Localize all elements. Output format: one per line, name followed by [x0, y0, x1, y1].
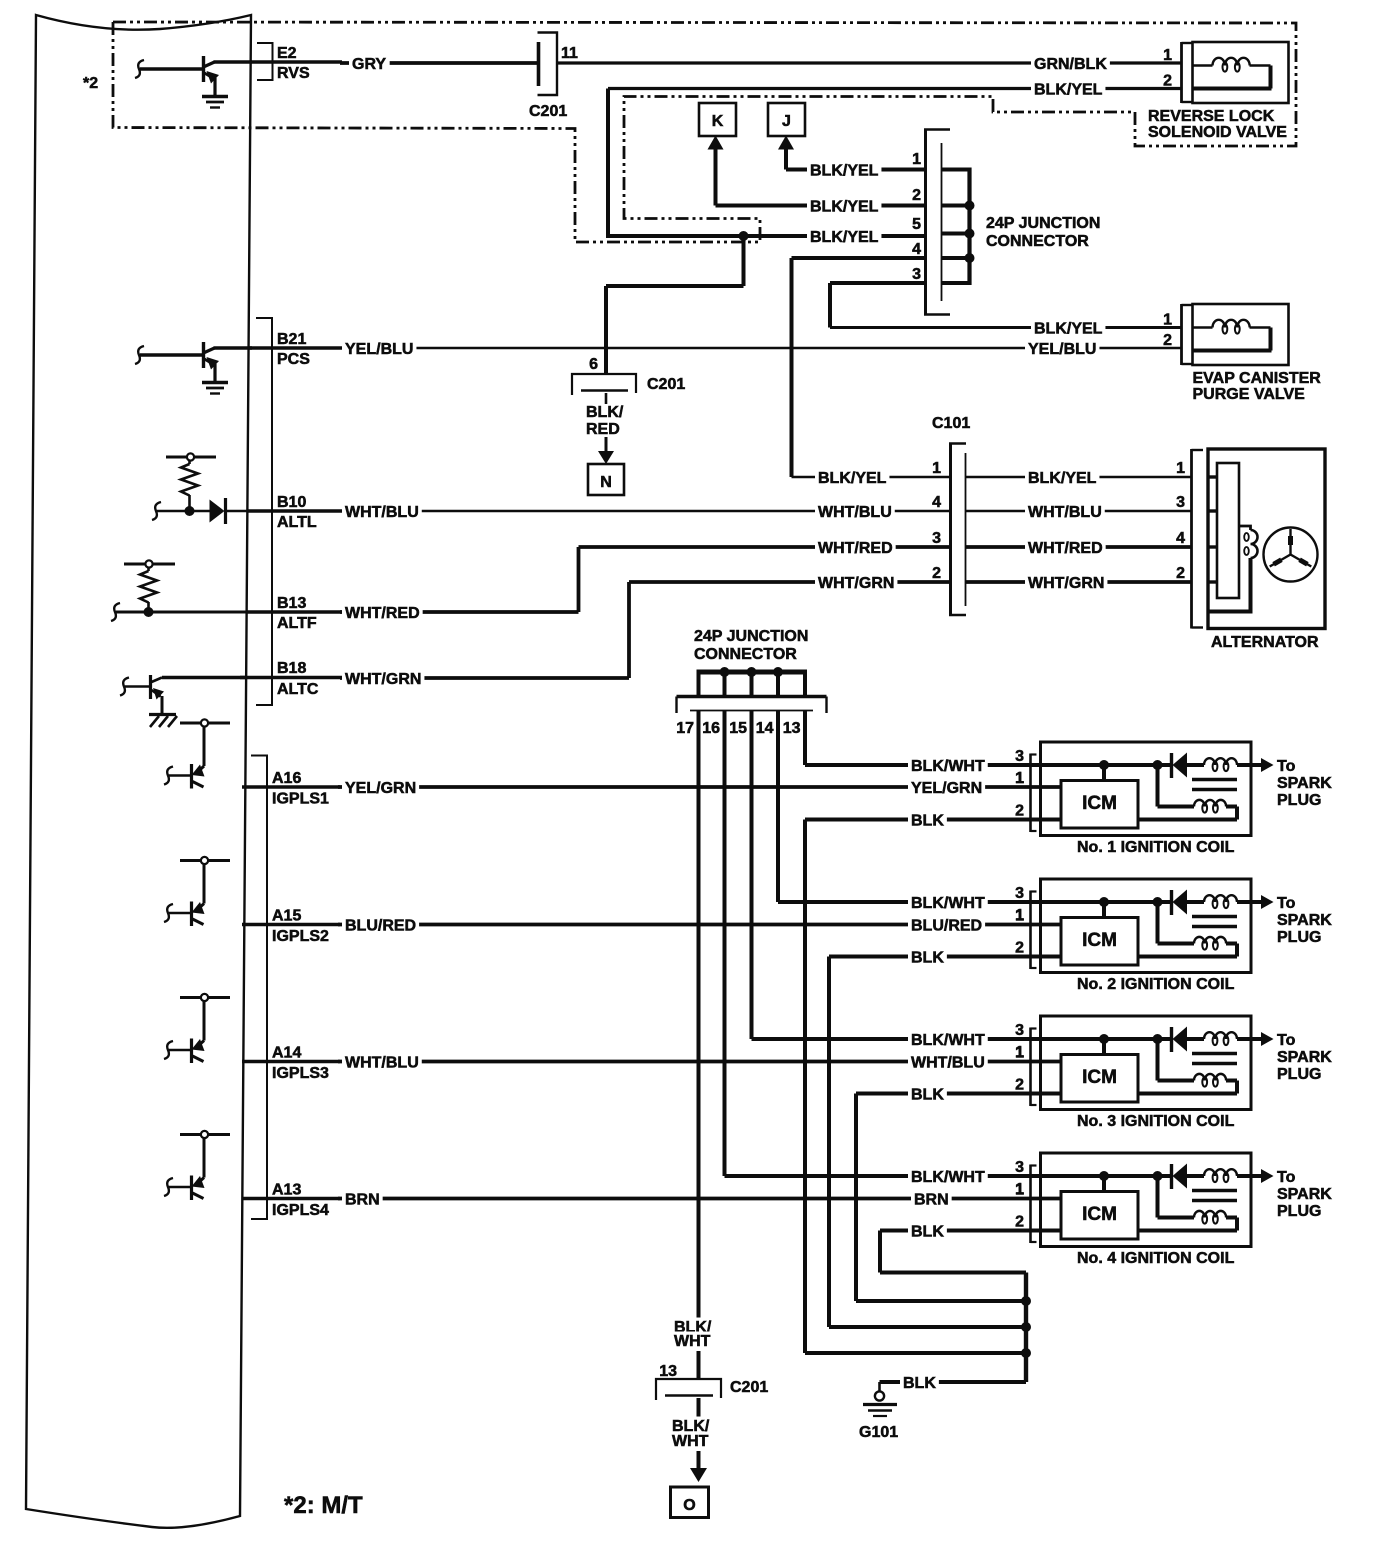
svg-text:ICM: ICM — [1082, 1067, 1117, 1088]
svg-text:WHT/BLU: WHT/BLU — [1028, 504, 1102, 521]
wire YEL/BLU from pin B21 to EVAP purge valve pin 2 — [340, 332, 1181, 359]
svg-text:WHT/BLU: WHT/BLU — [345, 504, 419, 521]
svg-text:WHT/BLU: WHT/BLU — [911, 1055, 985, 1072]
wire BLK/YEL from 24P junction pin 4 to C101 pin 1 — [792, 258, 951, 488]
svg-text:ICM: ICM — [1082, 1204, 1117, 1225]
svg-text:BLU/RED: BLU/RED — [345, 918, 416, 935]
svg-text:PLUG: PLUG — [1277, 1203, 1321, 1220]
svg-text:2: 2 — [1015, 1077, 1024, 1094]
svg-text:1: 1 — [932, 460, 941, 477]
svg-text:5: 5 — [912, 216, 921, 233]
svg-text:3: 3 — [1015, 885, 1024, 902]
svg-text:2: 2 — [1015, 1214, 1024, 1231]
svg-text:N: N — [600, 474, 612, 491]
pin A13 IGPLS4 — [242, 1182, 340, 1220]
connector 24P junction connector (lower) — [676, 628, 826, 737]
wire BLK/YEL to 24P junction connector pin 5 — [606, 228, 924, 247]
resistor R1 pull-up at pin B10 — [166, 453, 216, 511]
svg-text:CONNECTOR: CONNECTOR — [694, 646, 797, 663]
svg-text:WHT/GRN: WHT/GRN — [345, 671, 421, 688]
wire WHT/RED from pin B13 to C101 pin 3 — [111, 530, 950, 623]
svg-text:ICM: ICM — [1082, 793, 1117, 814]
svg-text:2: 2 — [1015, 940, 1024, 957]
svg-text:WHT/BLU: WHT/BLU — [345, 1055, 419, 1072]
svg-text:GRN/BLK: GRN/BLK — [1034, 56, 1107, 73]
svg-text:IGPLS4: IGPLS4 — [272, 1202, 329, 1219]
ground at Q2 emitter — [202, 383, 228, 394]
svg-text:BLK/: BLK/ — [586, 404, 624, 421]
svg-text:BLK: BLK — [911, 813, 944, 830]
svg-text:ALTL: ALTL — [277, 514, 317, 531]
svg-text:24P JUNCTION: 24P JUNCTION — [986, 215, 1100, 232]
svg-text:1: 1 — [1163, 312, 1172, 329]
svg-text:BLK/YEL: BLK/YEL — [818, 470, 887, 487]
svg-text:WHT/RED: WHT/RED — [345, 605, 420, 622]
svg-text:BLU/RED: BLU/RED — [911, 918, 982, 935]
svg-text:SPARK: SPARK — [1277, 912, 1332, 929]
svg-text:ALTF: ALTF — [277, 615, 317, 632]
svg-text:YEL/GRN: YEL/GRN — [345, 780, 416, 797]
svg-text:1: 1 — [1163, 47, 1172, 64]
svg-text:2: 2 — [1163, 332, 1172, 349]
svg-text:3: 3 — [912, 266, 921, 283]
pin E2 RVS (ECM connector pin bracket and labels) — [250, 43, 342, 82]
svg-text:BLK/YEL: BLK/YEL — [810, 199, 879, 216]
svg-text:WHT/GRN: WHT/GRN — [1028, 575, 1104, 592]
connector C201 pin 6 — [572, 356, 685, 395]
pin A16 IGPLS1 — [242, 770, 340, 808]
connector C201 pin 11 (inline connector) — [529, 33, 578, 121]
svg-text:C201: C201 — [730, 1379, 768, 1396]
svg-text:B13: B13 — [277, 595, 306, 612]
svg-text:3: 3 — [1015, 748, 1024, 765]
ignition coil No. 4 (with ICM igniter and diode) — [1015, 1153, 1332, 1267]
svg-text:BLK/YEL: BLK/YEL — [810, 229, 879, 246]
solenoid EVAP canister purge valve — [1182, 304, 1322, 403]
pin bracket for ECM pins A16 A15 A14 A13 — [251, 756, 267, 1220]
junction node on BLK/YEL wire — [739, 231, 749, 241]
svg-text:PLUG: PLUG — [1277, 929, 1321, 946]
ECM/PCM control unit boundary (torn page edges) — [26, 15, 251, 1528]
pin A14 IGPLS3 — [242, 1045, 340, 1083]
transistor Q3 (ALTC driver) — [120, 675, 247, 714]
wire WHT/BLU from pin A14 to No. 3 ignition coil pin 1 — [338, 1045, 1061, 1073]
svg-text:PCS: PCS — [277, 351, 310, 368]
svg-text:4: 4 — [1176, 530, 1185, 547]
wire BLK/YEL to connector K — [716, 197, 925, 216]
dash-dot boundary *2 M/T option region — [113, 22, 1296, 242]
transistor Q4 (IGPLS1 output driver) — [164, 719, 230, 788]
svg-text:SPARK: SPARK — [1277, 775, 1332, 792]
svg-text:C201: C201 — [647, 376, 685, 393]
svg-text:2: 2 — [932, 565, 941, 582]
svg-text:ICM: ICM — [1082, 930, 1117, 951]
svg-text:3: 3 — [1015, 1159, 1024, 1176]
wire BLK/YEL from junction node down to C201 pin 6 — [606, 236, 744, 374]
svg-text:4: 4 — [932, 494, 941, 511]
wire BLK from No.2 ignition coil pin 2 to ground bus — [829, 948, 1061, 1327]
transistor Q2 (PCS output driver) — [135, 342, 252, 382]
ignition coil No. 3 (with ICM igniter and diode) — [1015, 1016, 1332, 1130]
svg-text:B18: B18 — [277, 660, 306, 677]
svg-text:WHT: WHT — [672, 1433, 709, 1450]
svg-text:RED: RED — [586, 421, 620, 438]
diode D1 at pin B10 — [210, 498, 226, 524]
wire GRY from pin E2 to C201 pin 11 — [340, 55, 538, 74]
svg-text:E2: E2 — [277, 45, 297, 62]
svg-text:17: 17 — [676, 720, 694, 737]
svg-text:IGPLS3: IGPLS3 — [272, 1065, 329, 1082]
wire WHT/BLU from pin B10 to C101 pin 4 — [152, 494, 950, 522]
svg-text:BLK/YEL: BLK/YEL — [1034, 321, 1103, 338]
junction node coil 2 return — [1021, 1322, 1031, 1332]
transistor Q5 (IGPLS2 output driver) — [164, 857, 230, 926]
svg-text:11: 11 — [561, 45, 578, 62]
svg-text:14: 14 — [756, 720, 774, 737]
junction node coil 3 return — [1021, 1296, 1031, 1306]
wire BLK from No.1 ignition coil pin 2 to ground bus — [805, 811, 1061, 1353]
svg-text:G101: G101 — [859, 1424, 898, 1441]
svg-text:A13: A13 — [272, 1182, 301, 1199]
pin bracket for ECM pins B21 B10 B13 B18 — [256, 318, 272, 705]
solenoid reverse lock solenoid valve — [1148, 42, 1289, 141]
svg-text:C201: C201 — [529, 103, 567, 120]
svg-text:24P JUNCTION: 24P JUNCTION — [694, 628, 808, 645]
svg-text:B10: B10 — [277, 494, 306, 511]
connector J (to other circuit) — [768, 103, 805, 170]
wire BLK/YEL from reverse lock solenoid valve pin 2 down to junction — [608, 73, 1181, 237]
svg-text:15: 15 — [729, 720, 747, 737]
wire YEL/GRN from pin A16 to No. 1 ignition coil pin 1 — [338, 770, 1061, 798]
svg-text:YEL/BLU: YEL/BLU — [1028, 341, 1096, 358]
note label *2 — [83, 75, 98, 92]
svg-text:PLUG: PLUG — [1277, 1066, 1321, 1083]
svg-text:B21: B21 — [277, 331, 306, 348]
wire WHT/GRN from C101 to alternator pin 2 — [966, 565, 1192, 593]
svg-text:6: 6 — [589, 356, 598, 373]
svg-text:IGPLS1: IGPLS1 — [272, 791, 329, 808]
chassis ground at Q3 emitter — [149, 715, 177, 728]
svg-text:EVAP CANISTER: EVAP CANISTER — [1193, 370, 1322, 387]
svg-text:13: 13 — [783, 720, 801, 737]
node junction at B13 wire — [144, 607, 154, 617]
svg-text:BLK/WHT: BLK/WHT — [911, 895, 985, 912]
pin B21 PCS — [248, 331, 342, 368]
svg-text:SPARK: SPARK — [1277, 1049, 1332, 1066]
svg-text:K: K — [712, 113, 724, 130]
wire BLK/WHT from C201 to connector O — [669, 1398, 712, 1482]
svg-text:ALTERNATOR: ALTERNATOR — [1211, 634, 1319, 651]
wire WHT/BLU from C101 to alternator pin 3 — [966, 494, 1192, 522]
svg-text:BLK: BLK — [911, 1224, 944, 1241]
svg-text:A16: A16 — [272, 770, 301, 787]
svg-text:No. 3 IGNITION COIL: No. 3 IGNITION COIL — [1077, 1113, 1235, 1130]
svg-text:No. 4 IGNITION COIL: No. 4 IGNITION COIL — [1077, 1250, 1235, 1267]
svg-text:1: 1 — [1015, 1181, 1024, 1198]
svg-text:To: To — [1277, 1032, 1296, 1049]
svg-text:PLUG: PLUG — [1277, 792, 1321, 809]
ignition coil No. 1 (with ICM igniter and diode) — [1015, 742, 1332, 856]
wire BLK/WHT from junction pin 15 to No.3 ignition coil pin 3 — [752, 711, 1172, 1050]
svg-text:A15: A15 — [272, 908, 301, 925]
svg-text:To: To — [1277, 895, 1296, 912]
svg-text:2: 2 — [1163, 73, 1172, 90]
svg-text:WHT/RED: WHT/RED — [1028, 540, 1103, 557]
svg-text:BRN: BRN — [345, 1192, 380, 1209]
connector 24P junction connector (upper) — [912, 129, 1100, 316]
svg-text:4: 4 — [912, 241, 921, 258]
svg-text:BLK/WHT: BLK/WHT — [911, 758, 985, 775]
svg-text:To: To — [1277, 1169, 1296, 1186]
wire BLK/WHT from junction pin 17 to C201 pin 13 — [671, 711, 714, 1379]
svg-text:BLK/YEL: BLK/YEL — [810, 163, 879, 180]
svg-text:1: 1 — [1015, 1044, 1024, 1061]
wire BLK/YEL from C101 to alternator pin 1 — [966, 460, 1192, 488]
ground at Q1 emitter — [202, 97, 228, 108]
svg-text:3: 3 — [932, 530, 941, 547]
pin B10 ALTL — [247, 494, 342, 531]
svg-text:C101: C101 — [932, 415, 970, 432]
connector K (to other circuit) — [699, 103, 736, 206]
svg-text:3: 3 — [1176, 494, 1185, 511]
ground G101 — [859, 1382, 898, 1441]
svg-text:YEL/GRN: YEL/GRN — [911, 780, 982, 797]
svg-text:No. 2 IGNITION COIL: No. 2 IGNITION COIL — [1077, 976, 1235, 993]
svg-text:BLK: BLK — [903, 1375, 936, 1392]
svg-text:BLK: BLK — [911, 1087, 944, 1104]
svg-text:J: J — [782, 113, 791, 130]
connector N (to other circuit) — [588, 464, 624, 495]
svg-text:SOLENOID VALVE: SOLENOID VALVE — [1148, 124, 1287, 141]
connector C101 (inline connector) — [932, 415, 970, 616]
svg-text:A14: A14 — [272, 1045, 301, 1062]
svg-text:BLK/YEL: BLK/YEL — [1028, 470, 1097, 487]
svg-text:3: 3 — [1015, 1022, 1024, 1039]
ground bus vertical wire — [1024, 1273, 1028, 1383]
wire BLK from No.3 ignition coil pin 2 to ground bus — [856, 1085, 1061, 1301]
wire BLU/RED from pin A15 to No. 2 ignition coil pin 1 — [338, 908, 1061, 936]
alternator (with internal regulator connector and 3-phase stator) — [1192, 449, 1326, 651]
svg-text:YEL/BLU: YEL/BLU — [345, 341, 413, 358]
svg-text:2: 2 — [912, 187, 921, 204]
svg-text:ALTC: ALTC — [277, 681, 319, 698]
svg-text:*2: *2 — [83, 75, 98, 92]
transistor Q1 (RVS output driver) — [135, 56, 252, 96]
wire BLK/WHT from junction pin 14 to No.2 ignition coil pin 3 — [778, 711, 1172, 913]
svg-text:BRN: BRN — [914, 1192, 949, 1209]
svg-text:To: To — [1277, 758, 1296, 775]
node junction at B10 wire — [185, 506, 195, 516]
junction node coil 1 return — [1021, 1348, 1031, 1358]
svg-text:CONNECTOR: CONNECTOR — [986, 233, 1089, 250]
svg-text:O: O — [683, 1497, 695, 1514]
svg-text:BLK/YEL: BLK/YEL — [1034, 82, 1103, 99]
pin B18 ALTC — [277, 660, 319, 698]
transistor Q7 (IGPLS4 output driver) — [164, 1131, 230, 1200]
wire BLK/RED from C201 pin 6 to connector N — [586, 393, 624, 464]
svg-text:No. 1 IGNITION COIL: No. 1 IGNITION COIL — [1077, 839, 1235, 856]
ignition coil No. 2 (with ICM igniter and diode) — [1015, 879, 1332, 993]
svg-text:1: 1 — [1176, 460, 1185, 477]
svg-text:16: 16 — [702, 720, 720, 737]
svg-text:WHT/GRN: WHT/GRN — [818, 575, 894, 592]
resistor R2 pull-up at pin B13 — [124, 560, 175, 612]
svg-text:PURGE VALVE: PURGE VALVE — [1193, 386, 1306, 403]
svg-text:BLK: BLK — [911, 950, 944, 967]
wire BLK/YEL to connector J — [786, 161, 924, 180]
svg-text:*2: M/T: *2: M/T — [284, 1492, 363, 1519]
svg-text:BLK/WHT: BLK/WHT — [911, 1032, 985, 1049]
transistor Q6 (IGPLS3 output driver) — [164, 994, 230, 1063]
wire BRN from pin A13 to No. 4 ignition coil pin 1 — [338, 1182, 1061, 1210]
svg-text:WHT: WHT — [674, 1333, 711, 1350]
connector C201 pin 13 — [656, 1363, 768, 1400]
svg-text:RVS: RVS — [277, 65, 310, 82]
wire BLK/WHT from junction pin 13 to No.1 ignition coil pin 3 — [805, 711, 1172, 776]
pin A15 IGPLS2 — [242, 908, 340, 946]
note *2: M/T — [284, 1492, 363, 1519]
svg-text:WHT/BLU: WHT/BLU — [818, 504, 892, 521]
pin B13 ALTF — [247, 595, 342, 632]
wire BLK from No.4 ignition coil pin 2 to ground bus — [880, 1222, 1061, 1272]
svg-text:2: 2 — [1015, 803, 1024, 820]
svg-text:GRY: GRY — [352, 56, 386, 73]
svg-text:1: 1 — [1015, 770, 1024, 787]
svg-text:SPARK: SPARK — [1277, 1186, 1332, 1203]
svg-text:WHT/RED: WHT/RED — [818, 540, 893, 557]
svg-text:IGPLS2: IGPLS2 — [272, 928, 329, 945]
svg-text:REVERSE LOCK: REVERSE LOCK — [1148, 108, 1275, 125]
wire BLK from ground bus to ground G101 — [880, 1374, 1027, 1393]
wire BLK/WHT from junction pin 16 to No.4 ignition coil pin 3 — [725, 711, 1172, 1187]
connector O (to other circuit) — [671, 1487, 709, 1518]
wire GRN/BLK from C201 to reverse lock solenoid valve pin 1 — [557, 47, 1181, 74]
svg-text:13: 13 — [659, 1363, 677, 1380]
svg-text:2: 2 — [1176, 565, 1185, 582]
svg-text:1: 1 — [1015, 907, 1024, 924]
wire WHT/RED from C101 to alternator pin 4 — [966, 530, 1192, 558]
wire BLK/YEL from 24P junction pin 3 to EVAP purge valve pin 1 — [830, 283, 1181, 339]
wire WHT/GRN from pin B18 to C101 pin 2 — [240, 565, 950, 689]
svg-text:1: 1 — [912, 151, 921, 168]
svg-text:BLK/WHT: BLK/WHT — [911, 1169, 985, 1186]
